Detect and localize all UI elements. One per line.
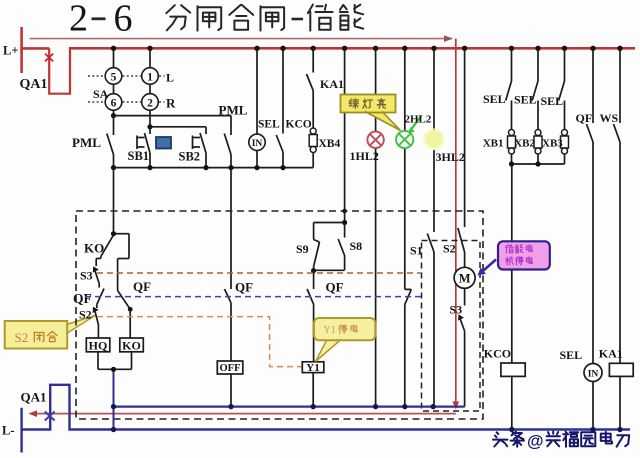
svg-text:QF: QF	[326, 280, 344, 295]
svg-text:R: R	[166, 96, 176, 111]
svg-text:S2: S2	[79, 308, 92, 322]
svg-text:SEL: SEL	[560, 348, 583, 362]
svg-text:1: 1	[147, 72, 153, 84]
svg-text:Y1: Y1	[306, 362, 319, 374]
svg-text:QF: QF	[133, 279, 151, 294]
svg-text:WS: WS	[600, 111, 619, 125]
svg-text:SEL: SEL	[258, 118, 280, 130]
svg-text:PML: PML	[219, 103, 248, 118]
svg-text:SEL: SEL	[514, 93, 537, 107]
svg-text:3HL2: 3HL2	[436, 150, 465, 164]
svg-text:S3: S3	[80, 269, 93, 283]
svg-text:Y1: Y1	[324, 325, 336, 336]
svg-text:L: L	[166, 71, 174, 85]
svg-text:KO: KO	[84, 241, 104, 256]
svg-text:6: 6	[111, 98, 117, 110]
svg-text:PML: PML	[72, 135, 101, 150]
svg-text:XB2: XB2	[514, 138, 535, 150]
svg-text:2HL2: 2HL2	[405, 113, 432, 125]
svg-text:HQ: HQ	[89, 338, 108, 352]
svg-text:S2: S2	[443, 242, 456, 256]
svg-text:@: @	[527, 432, 544, 451]
svg-text:XB4: XB4	[319, 138, 341, 150]
svg-text:KCO: KCO	[484, 347, 511, 361]
svg-text:5: 5	[111, 72, 117, 84]
svg-text:1HL2: 1HL2	[350, 149, 379, 163]
svg-text:XB1: XB1	[483, 138, 504, 150]
svg-text:QF: QF	[235, 280, 253, 295]
svg-text:S8: S8	[350, 239, 363, 253]
svg-text:IN: IN	[252, 139, 263, 149]
svg-text:S3: S3	[450, 303, 463, 317]
svg-text:KA1: KA1	[599, 347, 623, 361]
svg-text:QA1: QA1	[21, 390, 47, 405]
svg-text:SEL: SEL	[541, 94, 564, 108]
svg-text:SB1: SB1	[128, 149, 150, 163]
svg-text:L+: L+	[3, 44, 18, 58]
svg-text:QA1: QA1	[20, 77, 48, 92]
svg-text:SEL: SEL	[483, 92, 506, 106]
svg-text:IN: IN	[588, 370, 599, 380]
svg-text:SB2: SB2	[179, 150, 201, 164]
svg-text:S9: S9	[296, 242, 309, 256]
svg-text:2: 2	[69, 0, 88, 40]
svg-text:KA1: KA1	[320, 77, 344, 91]
svg-text:6: 6	[114, 0, 133, 40]
svg-text:KCO: KCO	[286, 118, 312, 130]
svg-text:KO: KO	[122, 338, 141, 352]
svg-text:L-: L-	[2, 424, 15, 438]
svg-text:SA: SA	[93, 87, 109, 101]
svg-text:QF: QF	[576, 111, 593, 125]
svg-text:2: 2	[147, 98, 153, 110]
svg-text:S2: S2	[15, 330, 29, 345]
svg-text:XB3: XB3	[542, 138, 563, 150]
svg-text:OFF: OFF	[220, 363, 241, 374]
svg-text:M: M	[459, 272, 471, 286]
